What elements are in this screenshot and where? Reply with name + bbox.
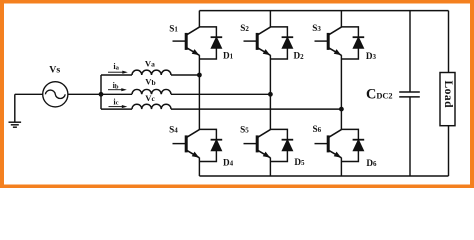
current arrow ia: [108, 71, 128, 74]
svg-text:ia: ia: [113, 62, 119, 71]
svg-text:Vb: Vb: [145, 77, 155, 87]
svg-text:D4: D4: [223, 157, 234, 167]
svg-text:D3: D3: [366, 51, 377, 61]
wire source to node: [68, 93, 101, 95]
node phase c / leg 3: [339, 107, 344, 112]
diode D3: [341, 27, 364, 59]
svg-text:Va: Va: [145, 58, 155, 68]
leg 1 top stub wire: [198, 11, 200, 27]
svg-text:Vc: Vc: [145, 93, 155, 103]
svg-text:Load: Load: [442, 81, 454, 109]
leg 2 middle wire: [269, 55, 271, 130]
transistor S2: [244, 27, 271, 55]
wire phase a: [101, 74, 132, 76]
leg 3 top stub wire: [340, 11, 342, 27]
wire phase c: [101, 108, 132, 110]
svg-text:Vs: Vs: [49, 65, 60, 76]
wire phase b to leg2: [171, 93, 270, 95]
transistor S1: [173, 27, 200, 55]
diode D4: [199, 129, 222, 161]
capacitor CDC2: [399, 92, 420, 97]
node phase a / leg 1: [197, 73, 202, 78]
ground: [9, 94, 22, 127]
svg-text:D5: D5: [294, 157, 305, 167]
leg 3 middle wire: [340, 55, 342, 130]
diode D6: [341, 129, 364, 161]
node source junction: [99, 92, 104, 97]
capacitor branch wire bottom: [409, 97, 411, 176]
svg-text:S1: S1: [169, 23, 178, 33]
svg-text:D1: D1: [223, 51, 234, 61]
leg 2 bottom stub wire: [269, 158, 271, 176]
inductor Vb: [132, 89, 171, 94]
current arrow ic: [109, 105, 128, 108]
node phase b / leg 2: [268, 92, 273, 97]
branch vertical wire: [100, 75, 102, 109]
diode D1: [199, 27, 222, 59]
wire phase b: [101, 93, 132, 95]
svg-text:S2: S2: [240, 23, 249, 33]
bottom DC rail: [199, 175, 448, 177]
diode D5: [270, 129, 293, 161]
load box: [440, 73, 455, 126]
transistor S4: [173, 130, 200, 158]
svg-text:D6: D6: [366, 158, 377, 168]
load branch wire bottom: [448, 125, 450, 176]
diode D2: [270, 27, 293, 59]
svg-text:D2: D2: [294, 51, 305, 61]
svg-text:S4: S4: [169, 125, 178, 135]
transistor S6: [315, 130, 342, 158]
border frame (decorative): [0, 0, 474, 188]
load branch wire top: [448, 11, 450, 73]
svg-text:ib: ib: [113, 81, 119, 90]
leg 1 middle wire: [198, 55, 200, 130]
wire phase c to leg3: [171, 108, 341, 110]
svg-text:S3: S3: [312, 23, 321, 33]
current arrow ib: [108, 88, 127, 91]
wire ground to source: [15, 93, 43, 95]
svg-text:ic: ic: [113, 98, 118, 107]
capacitor branch wire top: [409, 11, 411, 92]
leg 2 top stub wire: [269, 11, 271, 27]
top DC rail: [199, 10, 448, 12]
leg 3 bottom stub wire: [340, 158, 342, 176]
inductor Vc: [132, 104, 171, 109]
svg-text:S6: S6: [313, 124, 322, 134]
transistor S3: [315, 27, 342, 55]
wire phase a to leg1: [171, 74, 199, 76]
AC source Vs: [43, 82, 68, 107]
inductor Va: [132, 70, 171, 75]
leg 1 bottom stub wire: [198, 158, 200, 176]
transistor S5: [244, 130, 271, 158]
svg-text:S5: S5: [240, 124, 249, 134]
